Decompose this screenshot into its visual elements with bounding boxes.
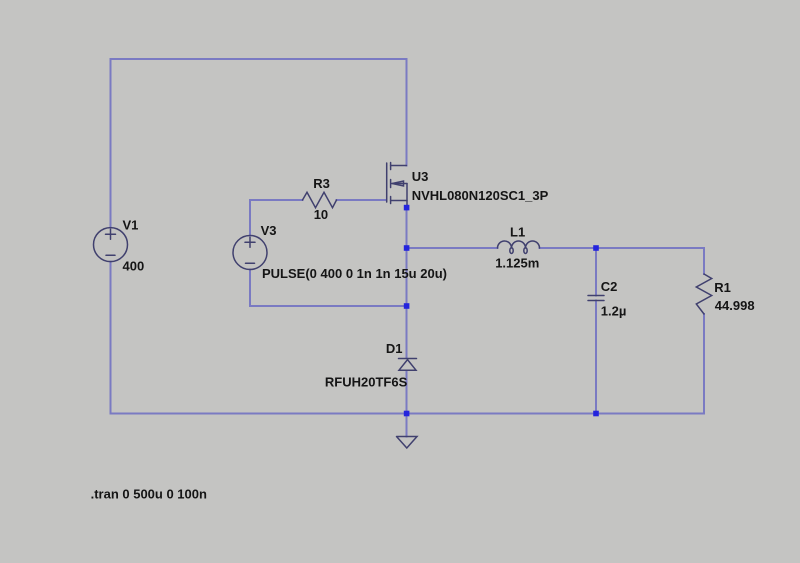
wire switch node to L1 bbox=[407, 247, 498, 249]
svg-text:D1: D1 bbox=[386, 341, 403, 356]
svg-text:44.998: 44.998 bbox=[715, 298, 755, 313]
wire bottom rail bbox=[111, 413, 705, 415]
wire L1 to R1 corner bbox=[540, 247, 705, 249]
wire R1 top bbox=[703, 248, 705, 274]
svg-text:R1: R1 bbox=[714, 280, 731, 295]
svg-text:PULSE(0 400 0 1n 1n 15u 20u): PULSE(0 400 0 1n 1n 15u 20u) bbox=[262, 266, 447, 281]
wire R1 bottom bbox=[703, 314, 705, 414]
wire source to diode bbox=[406, 208, 408, 358]
wire top rail bbox=[111, 58, 407, 60]
svg-text:RFUH20TF6S: RFUH20TF6S bbox=[325, 375, 408, 390]
wire left rail lower bbox=[110, 262, 112, 414]
node C2 top junction bbox=[593, 245, 599, 251]
voltage source V1 bbox=[94, 228, 128, 262]
wire C2 top bbox=[595, 248, 597, 296]
diode D1 bbox=[399, 359, 417, 371]
wire diode to bottom rail bbox=[406, 371, 408, 414]
resistor R3 bbox=[303, 192, 337, 207]
node switch pin junction bbox=[404, 205, 410, 211]
node V3 return junction bbox=[404, 303, 410, 309]
svg-text:1.125m: 1.125m bbox=[495, 256, 539, 271]
resistor R1 bbox=[696, 274, 711, 314]
svg-text:.tran 0 500u 0 100n: .tran 0 500u 0 100n bbox=[91, 486, 207, 501]
ground bbox=[397, 437, 418, 449]
wire left rail upper bbox=[110, 59, 112, 228]
voltage source V3 bbox=[233, 236, 267, 270]
wire R3 to gate bbox=[337, 199, 387, 201]
node diode bottom junction bbox=[404, 411, 410, 417]
svg-text:10: 10 bbox=[314, 207, 328, 222]
svg-text:C2: C2 bbox=[601, 279, 618, 294]
svg-text:V3: V3 bbox=[261, 223, 277, 238]
mosfet U3 bbox=[387, 163, 407, 208]
svg-text:U3: U3 bbox=[412, 169, 429, 184]
wire bottom rail to ground bbox=[406, 414, 408, 437]
wire C2 bottom bbox=[595, 301, 597, 414]
svg-text:R3: R3 bbox=[313, 176, 330, 191]
svg-text:NVHL080N120SC1_3P: NVHL080N120SC1_3P bbox=[412, 188, 549, 203]
capacitor C2 bbox=[588, 296, 604, 301]
node switch-L1 junction bbox=[404, 245, 410, 251]
wire V3 top to R3 bbox=[250, 200, 303, 236]
svg-text:L1: L1 bbox=[510, 225, 525, 240]
svg-text:V1: V1 bbox=[123, 218, 139, 233]
inductor L1 bbox=[498, 241, 540, 248]
wire V3 bottom bbox=[250, 270, 407, 307]
node C2 bottom junction bbox=[593, 411, 599, 417]
svg-text:400: 400 bbox=[123, 258, 145, 273]
svg-text:1.2µ: 1.2µ bbox=[601, 304, 627, 319]
wire drain vertical bbox=[406, 59, 408, 166]
